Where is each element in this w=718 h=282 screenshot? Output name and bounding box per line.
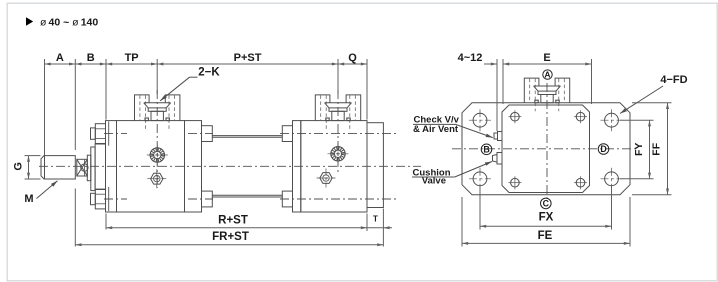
circled letter A — [543, 70, 552, 79]
gland flange large — [91, 147, 95, 191]
leader cushion valve — [455, 162, 492, 178]
cushion valve hex — [151, 173, 163, 184]
front cover plate — [106, 121, 117, 212]
end view centerline horizontal — [452, 148, 636, 150]
dimension FE — [461, 197, 463, 247]
leader check valve — [456, 124, 493, 137]
svg-text:E: E — [543, 52, 550, 64]
port plug — [329, 108, 347, 111]
svg-text:4~12: 4~12 — [458, 52, 483, 64]
port plug — [148, 108, 166, 111]
tie-rod boss — [282, 126, 292, 142]
tie rod bottom — [212, 194, 282, 196]
svg-text:A: A — [544, 70, 550, 80]
header arrow marker — [26, 17, 33, 25]
svg-text:A: A — [56, 52, 64, 64]
svg-text:C: C — [543, 199, 550, 209]
tie rod centerline bottom left — [104, 198, 127, 200]
tie rod centerline top left — [104, 133, 127, 135]
end view centerline vertical — [546, 83, 548, 198]
rod gland nose circle — [81, 164, 88, 171]
svg-text:2−K: 2−K — [198, 66, 220, 78]
svg-text:FX: FX — [539, 212, 554, 224]
dimension B — [75, 63, 106, 65]
cushion valve boss — [497, 153, 502, 165]
dimension T — [367, 227, 392, 229]
dimension FY — [620, 119, 654, 121]
port feet — [535, 100, 538, 103]
svg-text:B: B — [87, 52, 95, 64]
tie-rod boss — [202, 191, 213, 207]
mounting hole FD — [605, 113, 619, 127]
svg-text:P+ST: P+ST — [234, 52, 262, 64]
FR+ST extension lines — [74, 189, 76, 247]
svg-text:& Air Vent: & Air Vent — [413, 124, 459, 135]
svg-text:Q: Q — [348, 52, 357, 64]
svg-text:ø 40 ~ ø 140: ø 40 ~ ø 140 — [40, 17, 98, 29]
svg-text:TP: TP — [125, 52, 139, 64]
port cap outline — [135, 95, 150, 121]
svg-text:B: B — [483, 145, 489, 155]
circled letter B — [481, 144, 492, 155]
rear cover plate T — [367, 123, 383, 208]
cushion valve adjuster — [150, 148, 164, 162]
circled letter D — [598, 144, 609, 155]
svg-text:M: M — [24, 193, 33, 205]
port feet — [326, 118, 329, 121]
dimension FF — [632, 102, 672, 104]
end view outer plate FE x FF — [462, 103, 630, 195]
rod thread M — [41, 156, 75, 179]
svg-text:FY: FY — [633, 143, 645, 156]
dimension P+ST — [157, 63, 338, 65]
port funnel — [144, 102, 171, 104]
dimension extension lines top — [44, 59, 46, 156]
gland retainer plate — [95, 144, 105, 190]
port hidden holes — [320, 95, 322, 120]
tie-rod boss — [202, 126, 213, 142]
R+ST extension lines — [105, 214, 107, 230]
svg-text:4−FD: 4−FD — [660, 74, 687, 86]
tie-rod nut — [91, 193, 96, 204]
port funnel — [325, 102, 352, 104]
dimension A — [45, 63, 76, 65]
gland flange small — [87, 155, 91, 181]
port hidden holes — [139, 95, 141, 120]
svg-text:D: D — [600, 144, 606, 154]
port feet — [145, 118, 148, 121]
circled letter C — [541, 198, 552, 209]
mounting hole FD — [605, 172, 619, 186]
port funnel — [534, 85, 561, 87]
dimension FX — [479, 187, 481, 230]
cushion valve hex — [320, 173, 332, 184]
left head rear section — [185, 121, 202, 212]
tie rod hole — [576, 178, 585, 187]
end view inner plate FX x FY — [502, 105, 590, 193]
rod wrench flats box — [77, 159, 88, 176]
tie rod top — [212, 135, 282, 137]
left port centerline — [156, 90, 158, 188]
dimension E — [503, 63, 592, 65]
tie rod centerline top right — [280, 133, 399, 135]
port plug — [538, 91, 556, 94]
leader 2-K — [190, 76, 198, 78]
svg-text:FF: FF — [651, 142, 663, 155]
dimension G — [25, 155, 41, 157]
main axis centerline — [39, 165, 421, 167]
dimension TP — [106, 63, 157, 65]
left head block body — [117, 121, 185, 212]
port hidden holes — [529, 79, 531, 103]
tie rod hole — [511, 178, 520, 187]
dimension FR+ST — [75, 244, 383, 246]
cushion valve adjuster — [331, 147, 345, 161]
mounting hole FD — [473, 172, 487, 186]
svg-text:G: G — [13, 162, 25, 171]
port cap outline — [315, 95, 330, 121]
dimension Q — [338, 63, 367, 65]
tie-rod boss — [282, 191, 292, 207]
svg-text:FR+ST: FR+ST — [212, 231, 249, 243]
svg-text:T: T — [373, 215, 378, 224]
right head block body — [301, 121, 367, 212]
right port centerline — [337, 90, 339, 172]
port cap outline — [524, 78, 539, 103]
tie rod hole — [511, 112, 520, 121]
svg-text:FE: FE — [538, 230, 553, 242]
svg-text:R+ST: R+ST — [218, 215, 248, 227]
tie-rod nut — [91, 128, 96, 139]
check valve boss — [498, 132, 503, 141]
mounting hole FD — [473, 113, 487, 127]
right head front section — [293, 121, 301, 212]
tie rod centerline bottom right — [280, 198, 399, 200]
tie rod hole — [576, 112, 585, 121]
dimension R+ST — [106, 227, 367, 229]
